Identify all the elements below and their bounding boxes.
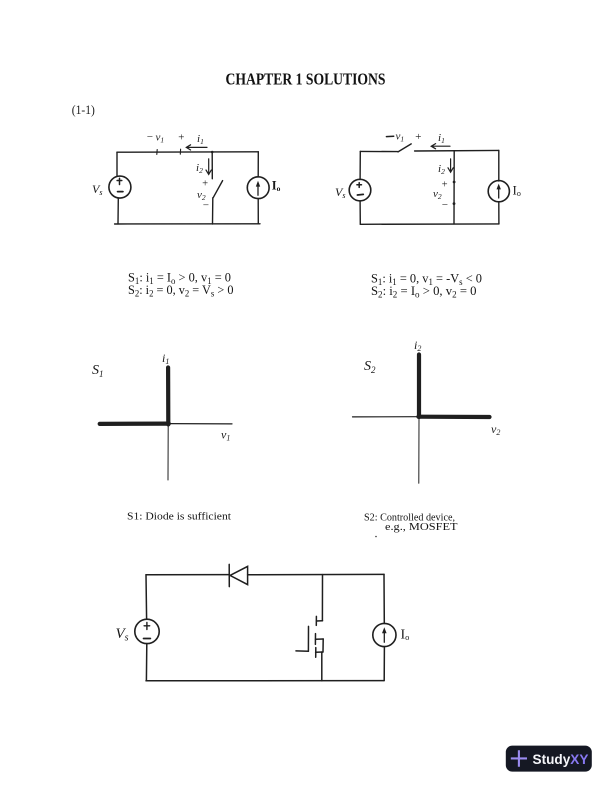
circuit 2: wire right upper bbox=[498, 150, 500, 181]
svg-text:Io: Io bbox=[401, 628, 410, 643]
circuit 3: wire top right bbox=[248, 573, 384, 575]
circuit 3: wire top left bbox=[146, 574, 229, 576]
graph S2: v2 axis thin left bbox=[353, 416, 420, 418]
svg-text:S2: i2 = 0, v2 = Vs > 0: S2: i2 = 0, v2 = Vs > 0 bbox=[128, 283, 234, 299]
MOSFET Q: body stub bbox=[316, 638, 324, 640]
current source Io (left circuit) bbox=[247, 177, 269, 199]
graph S1: v1 axis thin right bbox=[168, 423, 232, 425]
svg-text:S2: i2 = Io > 0, v2 = 0: S2: i2 = Io > 0, v2 = 0 bbox=[371, 284, 477, 300]
StudyXY logo badge bbox=[506, 746, 592, 772]
svg-text:Io: Io bbox=[272, 179, 281, 194]
current arrow i2 (right circuit) bbox=[448, 159, 453, 172]
label minus v1 plus (right circuit) bbox=[386, 135, 393, 137]
graph S1: i1 axis thick up bbox=[166, 368, 170, 425]
tick mark v1 minus bbox=[156, 150, 158, 155]
svg-text:v1: v1 bbox=[156, 132, 165, 145]
svg-text:Vs: Vs bbox=[116, 626, 129, 644]
svg-text:+: + bbox=[441, 180, 448, 191]
svg-text:CHAPTER 1 SOLUTIONS: CHAPTER 1 SOLUTIONS bbox=[226, 69, 386, 88]
circuit 2: middle branch wire bbox=[453, 151, 455, 224]
svg-text:−: − bbox=[202, 200, 209, 212]
MOSFET Q: channel segment 2 bbox=[314, 634, 316, 645]
circuit 2: wire top right bbox=[415, 149, 499, 152]
svg-text:i2: i2 bbox=[414, 338, 421, 353]
current source Io (right circuit) bbox=[488, 181, 509, 202]
svg-text:+: + bbox=[178, 132, 185, 144]
switch S (right circuit): blade bbox=[398, 144, 411, 152]
voltage source Vs (bottom circuit) bbox=[135, 619, 159, 643]
svg-text:(1-1): (1-1) bbox=[72, 102, 95, 117]
circuit 1: wire bottom bbox=[115, 223, 260, 225]
MOSFET Q: drain stub bbox=[317, 620, 323, 622]
MOSFET Q: gate bar bbox=[307, 626, 309, 651]
svg-text:e.g., MOSFET: e.g., MOSFET bbox=[385, 522, 458, 533]
tick mark v1 plus bbox=[179, 149, 181, 154]
circuit 2: wire top left bbox=[360, 150, 397, 152]
switch S (left circuit): top stub bbox=[211, 152, 213, 179]
circuit 3: wire bottom bbox=[146, 680, 384, 682]
svg-text:i2: i2 bbox=[438, 163, 445, 176]
circuit 1: wire top bbox=[117, 151, 258, 153]
svg-text:i1: i1 bbox=[162, 351, 169, 366]
svg-text:+: + bbox=[202, 179, 209, 190]
graph S2: i2 axis thick up bbox=[417, 355, 421, 418]
MOSFET Q: drain wire bbox=[321, 575, 323, 621]
circuit 3: wire right lower bbox=[383, 647, 385, 681]
node: junction top wire / branch bbox=[211, 151, 214, 154]
circuit 2: wire right lower bbox=[498, 202, 500, 224]
circuit 1: wire right upper bbox=[257, 152, 259, 177]
circuit 3: wire right upper bbox=[383, 574, 385, 623]
voltage source Vs (left circuit) bbox=[109, 176, 131, 198]
svg-text:Io: Io bbox=[513, 183, 521, 199]
svg-text:+: + bbox=[415, 131, 422, 143]
circuit 1: wire right lower bbox=[257, 199, 259, 224]
current arrow i1 (right circuit) bbox=[431, 144, 450, 149]
circuit 3: wire left lower bbox=[145, 644, 147, 681]
MOSFET Q: source stub bbox=[316, 651, 323, 653]
circuit 3: wire left upper bbox=[145, 575, 148, 620]
switch S (left circuit): lower wire bbox=[212, 198, 214, 224]
node dot on middle branch lower bbox=[453, 202, 456, 205]
stray dot bbox=[375, 536, 377, 538]
svg-text:i1: i1 bbox=[197, 133, 204, 146]
svg-text:v1: v1 bbox=[221, 428, 230, 443]
svg-text:v2: v2 bbox=[491, 422, 500, 437]
svg-text:Vs: Vs bbox=[335, 185, 345, 200]
MOSFET Q: source wire down bbox=[321, 652, 323, 681]
svg-text:Vs: Vs bbox=[92, 182, 102, 197]
circuit 2: wire left upper bbox=[359, 151, 361, 179]
circuit 2: wire left lower bbox=[359, 201, 361, 224]
diode D: cathode bar bbox=[228, 564, 230, 586]
graph S2: v2 axis thick right bbox=[418, 415, 489, 419]
circuit 2: wire bottom bbox=[360, 223, 499, 225]
svg-text:v1: v1 bbox=[396, 131, 405, 144]
MOSFET Q: channel segment 1 bbox=[315, 616, 317, 625]
svg-text:S2: S2 bbox=[364, 359, 376, 375]
svg-text:i1: i1 bbox=[438, 132, 445, 145]
graph S1: i1 axis thin down bbox=[167, 424, 169, 480]
svg-text:i2: i2 bbox=[196, 162, 203, 175]
current arrow i2 (left circuit) bbox=[206, 159, 211, 175]
current arrow i1 (left circuit) bbox=[186, 145, 207, 150]
svg-text:S1: S1 bbox=[92, 363, 104, 379]
svg-text:StudyXY: StudyXY bbox=[533, 752, 589, 767]
logo plus icon bbox=[511, 750, 527, 767]
graph S1: v1 axis thick left bbox=[100, 422, 169, 426]
graph S2: i2 axis thin down bbox=[418, 417, 420, 483]
MOSFET Q: body drop wire bbox=[322, 639, 324, 652]
circuit 1: wire left lower bbox=[117, 198, 119, 224]
circuit 1: wire left bbox=[116, 152, 118, 176]
switch S (left circuit): blade bbox=[213, 181, 223, 198]
node dot on middle branch upper bbox=[453, 181, 456, 184]
svg-text:S1: Diode is sufficient: S1: Diode is sufficient bbox=[127, 510, 231, 522]
current source Io (bottom circuit) bbox=[373, 623, 396, 646]
diode D: triangle bbox=[230, 566, 248, 584]
svg-text:−: − bbox=[146, 131, 153, 143]
MOSFET Q: gate lead bbox=[296, 650, 308, 652]
MOSFET Q: channel segment 3 bbox=[315, 648, 317, 658]
voltage source Vs (right circuit) bbox=[349, 179, 371, 201]
svg-text:−: − bbox=[441, 199, 448, 211]
